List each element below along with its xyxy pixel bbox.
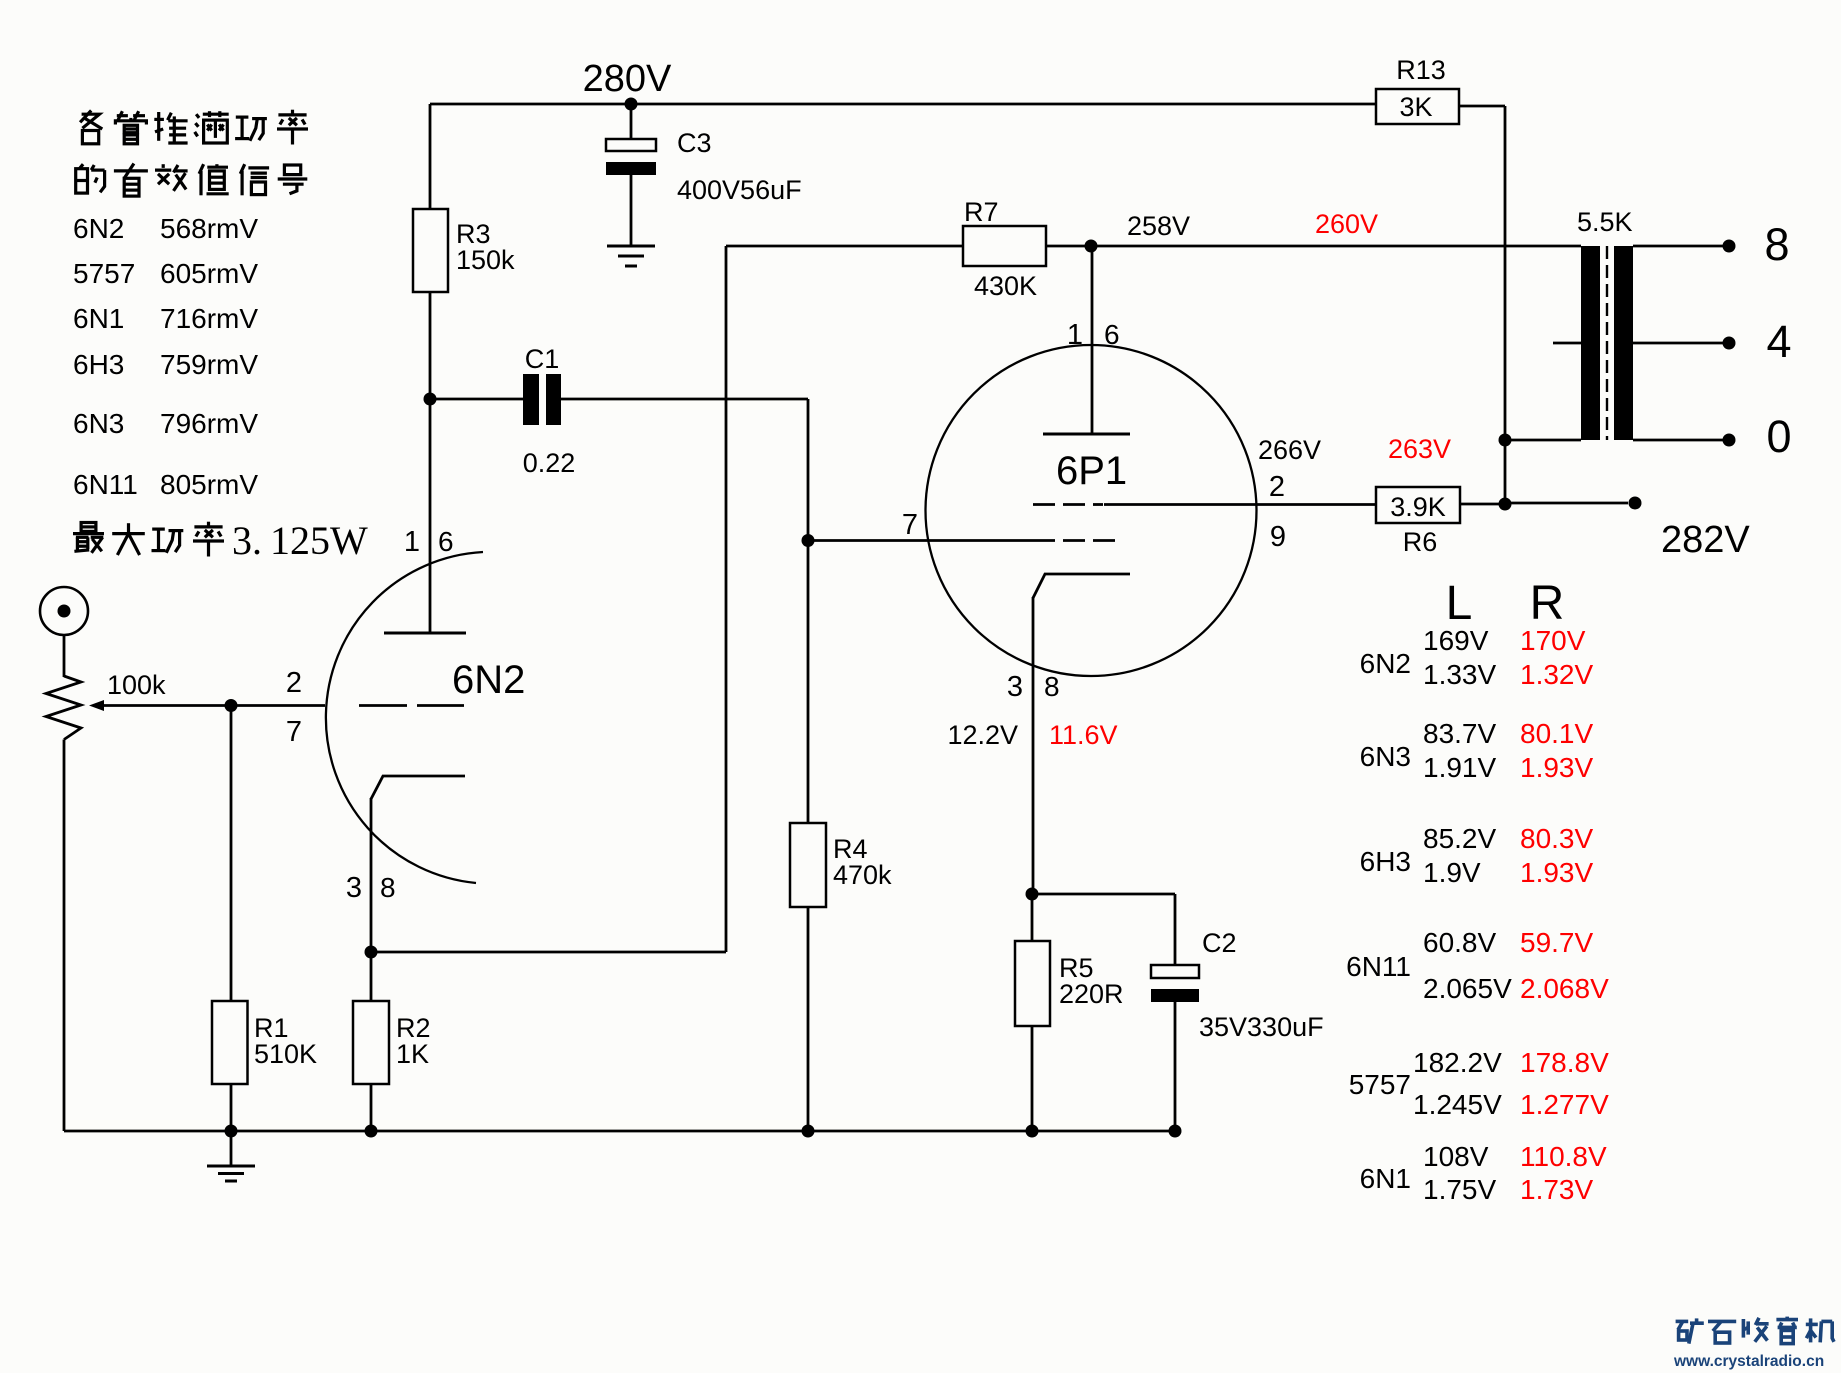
svg-text:1.73V: 1.73V [1520,1174,1593,1205]
svg-text:805rmV: 805rmV [160,469,258,500]
junction R3/C1 node [424,393,437,406]
wire R7 to transformer [1046,245,1581,248]
capacitor C2 [1151,965,1199,978]
svg-text:L: L [1446,577,1473,630]
svg-text:1.32V: 1.32V [1520,659,1593,690]
svg-text:280V: 280V [583,58,672,100]
svg-text:510K: 510K [254,1039,317,1069]
svg-text:400V56uF: 400V56uF [677,175,802,205]
svg-text:170V: 170V [1520,625,1586,656]
wire R5 top lead [1031,894,1034,942]
wire secondary tap 0 [1633,439,1723,442]
svg-text:258V: 258V [1127,211,1190,241]
junction grid 6N2 [225,699,238,712]
svg-text:C2: C2 [1202,928,1237,958]
junction 6P1 grid node [802,534,815,547]
svg-text:6N2: 6N2 [73,213,124,244]
wire cathode to R7 (feedback) [371,951,726,954]
wire R5 bottom lead [1031,1026,1034,1131]
resistor R5 [1015,941,1050,1026]
potentiometer 100k body [46,676,81,740]
wire R13 right to OPT [1459,105,1505,108]
svg-text:80.3V: 80.3V [1520,823,1593,854]
svg-text:1.9V: 1.9V [1423,857,1481,888]
resistor R4 [790,823,826,907]
svg-text:178.8V: 178.8V [1520,1047,1609,1078]
svg-text:R: R [1530,577,1565,630]
svg-text:C3: C3 [677,128,712,158]
capacitor C3 [606,139,656,151]
svg-text:6N3: 6N3 [1360,741,1411,772]
tube 6P1 screen grid (dashed) [1033,503,1055,506]
junction 6P1 plate node [1085,240,1098,253]
resistor R2 [353,1001,389,1084]
resistor R1 [212,1001,248,1084]
junction 280V/C3 [625,98,638,111]
potentiometer wiper arrow [103,704,231,707]
tube 6N2 plate [384,632,466,635]
annotation text line 1 (Chinese) [80,111,102,144]
resistor R3 [413,209,448,292]
svg-text:9: 9 [1270,521,1286,553]
svg-text:2.065V: 2.065V [1423,973,1512,1004]
svg-text:6N2: 6N2 [1360,648,1411,679]
svg-text:83.7V: 83.7V [1423,718,1496,749]
svg-text:1.75V: 1.75V [1423,1174,1496,1205]
transformer primary winding [1581,246,1600,440]
wire jack to pot [63,635,66,677]
svg-text:59.7V: 59.7V [1520,927,1593,958]
wire 6P1 plate lead [1091,246,1094,435]
svg-text:12.2V: 12.2V [947,720,1018,750]
ground C3 [607,245,655,248]
transformer secondary winding [1614,246,1633,440]
svg-text:3.125W: 3.125W [232,518,368,563]
wire R13 node down [1504,440,1507,504]
svg-text:1.91V: 1.91V [1423,752,1496,783]
wire 280V rail [430,103,1376,106]
wire secondary tap 4 [1633,342,1723,345]
svg-text:1.93V: 1.93V [1520,857,1593,888]
wire ground stub [230,1131,233,1166]
svg-text:6P1: 6P1 [1056,449,1127,493]
svg-text:220R: 220R [1059,979,1124,1009]
svg-text:1: 1 [404,526,420,558]
wire pot bottom to ground rail [63,740,66,1132]
resistor R6 [1376,487,1460,523]
svg-text:1K: 1K [396,1039,429,1069]
svg-text:470k: 470k [833,860,892,890]
svg-text:263V: 263V [1388,434,1451,464]
wire C3 top lead [630,104,633,140]
svg-text:3K: 3K [1399,92,1432,122]
svg-text:35V330uF: 35V330uF [1199,1012,1324,1042]
svg-text:108V: 108V [1423,1141,1489,1172]
svg-text:266V: 266V [1258,435,1321,465]
annotation text line 2 (Chinese) [76,164,105,193]
measurement table [1346,625,1609,1205]
junction rail/R4 [802,1125,815,1138]
transformer core (dashed) [1606,246,1608,440]
svg-text:605rmV: 605rmV [160,258,258,289]
wire R1 bottom lead [230,1084,233,1131]
wire ground rail [64,1130,1175,1133]
terminal 282V [1629,497,1642,510]
resistor R13 [1376,89,1459,124]
annotation max power (Chinese + value) [73,523,104,553]
tube 6N2 grid (dashed) [359,704,464,707]
svg-text:5757: 5757 [73,258,135,289]
svg-text:6H3: 6H3 [1360,846,1411,877]
svg-text:80.1V: 80.1V [1520,718,1593,749]
terminal 8 [1723,240,1736,253]
junction rail/R5 [1026,1125,1039,1138]
svg-text:759rmV: 759rmV [160,349,258,380]
wire R2 bottom lead [370,1084,373,1131]
svg-text:110.8V: 110.8V [1520,1141,1607,1172]
input jack [40,587,88,635]
svg-text:R7: R7 [964,197,999,227]
resistor R7 [963,226,1046,266]
svg-text:150k: 150k [456,245,515,275]
svg-text:1.93V: 1.93V [1520,752,1593,783]
svg-text:11.6V: 11.6V [1049,720,1118,750]
svg-text:4: 4 [1766,316,1791,367]
wire grid to 6N2 [231,704,325,707]
wire R3 top lead [429,104,432,210]
wire OPT primary bottom [1505,439,1581,442]
svg-text:260V: 260V [1315,209,1378,239]
junction rail/C2 [1169,1125,1182,1138]
svg-text:6: 6 [1104,319,1120,350]
svg-text:85.2V: 85.2V [1423,823,1496,854]
svg-text:1: 1 [1067,319,1083,351]
svg-text:R13: R13 [1396,55,1446,85]
svg-text:0: 0 [1766,411,1791,462]
svg-text:6: 6 [438,526,454,557]
transformer primary tap stub [1553,342,1581,345]
tube 6P1 envelope [926,345,1257,676]
svg-text:8: 8 [1044,671,1060,702]
svg-text:R6: R6 [1403,527,1438,557]
svg-text:568rmV: 568rmV [160,213,258,244]
svg-text:3.9K: 3.9K [1390,492,1446,522]
tube 6P1 cathode [1033,574,1130,598]
svg-text:1.277V: 1.277V [1520,1089,1609,1120]
wire R6 to 282V point [1460,503,1505,506]
svg-text:5757: 5757 [1349,1069,1411,1100]
svg-text:www.crystalradio.cn: www.crystalradio.cn [1673,1353,1824,1370]
wire C1 left lead [430,398,523,401]
wire secondary tap 8 [1633,245,1723,248]
tube 6P1 control grid (dashed) [808,539,1055,542]
svg-text:6H3: 6H3 [73,349,124,380]
svg-text:182.2V: 182.2V [1413,1047,1502,1078]
junction rail/R1 [225,1125,238,1138]
svg-text:8: 8 [380,872,396,903]
ground main [207,1165,255,1168]
svg-text:430K: 430K [974,271,1037,301]
svg-text:6N2: 6N2 [452,658,525,702]
svg-text:169V: 169V [1423,625,1489,656]
svg-text:3: 3 [346,872,362,904]
junction OPT primary bottom [1499,434,1512,447]
tube 6N2 envelope [326,552,483,883]
junction 6N2 cathode node [365,946,378,959]
wire 6P1 cathode lead [1032,597,1035,894]
svg-text:3: 3 [1007,671,1023,703]
wire 6P1 grid2 to R6 [1104,503,1376,506]
svg-text:282V: 282V [1661,519,1750,561]
junction 6P1 cathode node [1026,888,1039,901]
junction rail/R2 [365,1125,378,1138]
svg-text:6N11: 6N11 [73,469,138,500]
svg-text:0.22: 0.22 [523,448,576,478]
svg-text:7: 7 [286,716,302,748]
svg-text:1.33V: 1.33V [1423,659,1496,690]
wire R3 to 6N2 plate [429,292,432,634]
svg-text:C1: C1 [525,344,560,374]
svg-text:6N3: 6N3 [73,408,124,439]
svg-text:100k: 100k [107,670,166,700]
signal level table [73,213,258,500]
junction R6 output node [1499,498,1512,511]
svg-text:716rmV: 716rmV [160,303,258,334]
svg-text:8: 8 [1764,219,1789,270]
wire R4 bottom lead [807,907,810,1131]
wire cathode to C2 [1032,893,1175,896]
svg-text:2: 2 [1269,471,1285,503]
svg-text:2: 2 [286,667,302,699]
svg-text:6N1: 6N1 [73,303,124,334]
wire R4 top lead [807,541,810,825]
svg-text:7: 7 [902,509,918,541]
wire C1 to 6P1 grid [561,398,808,401]
svg-text:1.245V: 1.245V [1413,1089,1502,1120]
capacitor C1 [523,374,539,425]
wire R1 top lead [230,706,233,1003]
svg-text:5.5K: 5.5K [1577,207,1633,237]
wire 6N2 cathode lead [370,798,373,1002]
terminal 0 [1723,434,1736,447]
watermark logo (Chinese) [1676,1318,1704,1343]
tube 6N2 cathode [371,776,465,799]
svg-text:2.068V: 2.068V [1520,973,1609,1004]
tube 6P1 plate [1043,433,1130,436]
svg-text:796rmV: 796rmV [160,408,258,439]
terminal 4 [1723,337,1736,350]
svg-text:60.8V: 60.8V [1423,927,1496,958]
svg-text:6N1: 6N1 [1360,1163,1411,1194]
svg-text:6N11: 6N11 [1346,951,1411,982]
